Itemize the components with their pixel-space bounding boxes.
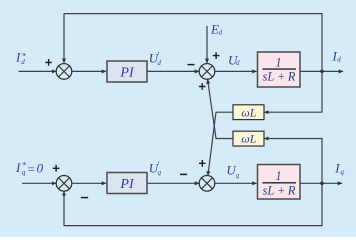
wire: Iq node up to wL2 input	[264, 139, 322, 184]
label Uq (q-axis voltage)	[226, 163, 239, 180]
label Ud (d-axis voltage)	[228, 53, 240, 68]
svg-text:q: q	[158, 168, 162, 176]
block PI (q-axis current regulator)	[107, 173, 147, 194]
label Ed (back-EMF input)	[210, 21, 223, 36]
svg-text:d: d	[157, 59, 161, 67]
summing junction S2 (d-axis voltage)	[199, 64, 215, 80]
svg-text:I: I	[334, 160, 340, 175]
svg-text:PI: PI	[119, 177, 135, 192]
node: Iq feedback tap	[320, 182, 324, 186]
sign + at S2 top input	[213, 52, 220, 59]
wire: q-axis reference input	[22, 182, 56, 184]
wire: d-axis reference input	[19, 70, 57, 72]
block G1 plant 1/(sL+R) d-axis	[258, 52, 301, 87]
wire: Id node down to wL1 input	[264, 71, 322, 112]
label Id (d-axis current output)	[332, 49, 342, 64]
label Ud' (PI output)	[149, 50, 162, 67]
svg-text:q: q	[236, 172, 240, 180]
wire: S3 to PI block	[72, 182, 106, 184]
wire: S4 to q-axis plant	[215, 182, 257, 184]
wire: q-axis output Iq	[300, 182, 342, 184]
block G2 plant 1/(sL+R) q-axis	[258, 165, 301, 200]
svg-text:ωL: ωL	[241, 105, 256, 119]
node: Id feedback tap	[320, 70, 324, 74]
svg-text:I: I	[15, 160, 21, 175]
wire: PI output to summing junction S4	[147, 182, 199, 184]
svg-text:I: I	[15, 49, 21, 64]
wire: wL2 output cross-coupling to S2 bottom	[208, 79, 233, 138]
svg-text:sL + R: sL + R	[263, 184, 296, 198]
svg-text:=: =	[27, 161, 36, 176]
sign - at S3 feedback input	[81, 197, 88, 199]
wire: PI output to summing junction S2	[147, 70, 199, 72]
sign + at d-axis input summing junction	[45, 59, 52, 66]
wire: S1 to PI block	[72, 70, 106, 72]
svg-text:1: 1	[275, 169, 281, 183]
svg-text:q: q	[22, 167, 26, 176]
label Uq' (PI output)	[149, 160, 162, 176]
svg-text:0: 0	[37, 160, 44, 175]
summing junction S3 (q-axis error)	[56, 176, 72, 192]
sign + at S4 top input	[199, 160, 206, 167]
svg-text:q: q	[340, 168, 344, 176]
svg-text:ωL: ωL	[241, 132, 256, 146]
wire: d-axis feedback (top loop from Id node to S1)	[64, 14, 322, 72]
sign - at S2 left input	[188, 64, 195, 66]
wire: d-axis output Id	[300, 70, 343, 72]
wire: q-axis feedback (bottom loop from Iq node to S3)	[64, 183, 322, 225]
sign - at S4 left input	[180, 173, 187, 175]
label Iq* = 0 (q-axis current reference)	[15, 160, 44, 177]
label Iq (q-axis current output)	[334, 160, 344, 176]
block wL1 (decoupling gain, upper)	[233, 105, 264, 120]
svg-text:d: d	[236, 59, 240, 67]
block wL2 (decoupling gain, lower)	[233, 131, 264, 146]
sign + at S2 bottom input	[199, 83, 206, 90]
svg-text:PI: PI	[119, 66, 135, 81]
block PI (d-axis current regulator)	[107, 61, 147, 82]
wire: S2 to d-axis plant	[215, 70, 257, 72]
svg-text:1: 1	[275, 55, 281, 69]
wire: Ed stub into S2 top	[206, 26, 208, 63]
wire: wL1 output cross-coupling to S4 top	[208, 112, 233, 175]
summing junction S4 (q-axis voltage)	[199, 176, 215, 192]
label Id* (d-axis current reference)	[15, 49, 27, 66]
svg-text:d: d	[219, 29, 223, 37]
svg-text:d: d	[337, 56, 341, 64]
sign + at q-axis input summing junction	[53, 165, 60, 172]
svg-text:d: d	[21, 58, 25, 66]
summing junction S1 (d-axis error)	[56, 64, 72, 80]
svg-text:sL + R: sL + R	[263, 69, 296, 83]
